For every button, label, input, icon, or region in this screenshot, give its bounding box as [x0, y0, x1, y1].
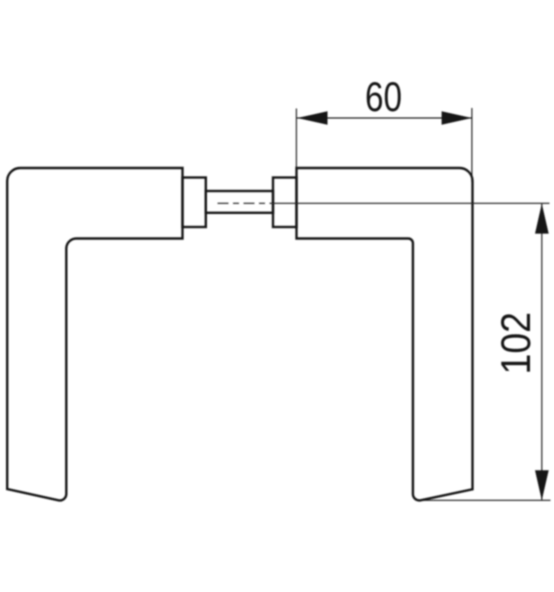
left neck ferrule	[183, 178, 206, 228]
arrowhead right of 60	[442, 111, 472, 125]
extension line: spindle axis out to 102 dimension	[273, 202, 550, 204]
extension line: bottom of handle out to 102 dimension	[423, 499, 551, 501]
left handle outline	[7, 168, 182, 500]
svg-text:102: 102	[492, 312, 539, 375]
extension line: right end of 60 dimension	[471, 108, 473, 182]
extension line: left end of 60 dimension	[295, 109, 297, 169]
spindle bar	[206, 191, 273, 213]
right handle outline	[297, 168, 473, 500]
arrowhead top of 102	[535, 204, 549, 234]
dimension line 102	[541, 204, 543, 501]
arrowhead bottom of 102	[535, 470, 549, 500]
right neck ferrule	[273, 178, 297, 228]
svg-text:60: 60	[365, 73, 402, 120]
dimension line 60	[297, 117, 472, 119]
arrowhead left of 60	[297, 111, 327, 125]
centerline dash-dot through spindle	[218, 202, 274, 204]
